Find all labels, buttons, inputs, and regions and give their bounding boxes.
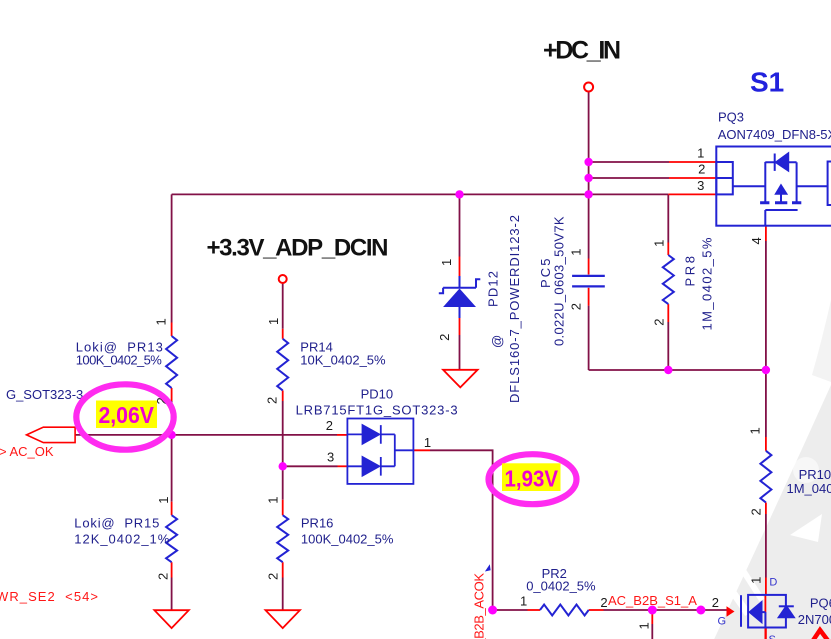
svg-text:10K_0402_5%: 10K_0402_5% — [300, 353, 386, 368]
svg-text:PQ6: PQ6 — [810, 596, 831, 611]
svg-text:> AC_OK: > AC_OK — [0, 444, 54, 459]
svg-text:PR8: PR8 — [683, 256, 698, 287]
svg-text:2: 2 — [652, 319, 667, 326]
svg-text:1: 1 — [439, 259, 454, 266]
svg-text:0.022U_0603_50V7K: 0.022U_0603_50V7K — [552, 216, 567, 346]
pin numbers PR14 (rotated) — [265, 318, 282, 404]
svg-text:LRB715FT1G_SOT323-3: LRB715FT1G_SOT323-3 — [296, 403, 458, 418]
svg-text:2: 2 — [698, 162, 705, 177]
net arrow mark — [485, 564, 491, 571]
wire to PR10 — [765, 370, 767, 437]
svg-text:1: 1 — [652, 240, 667, 247]
wire PC5 top lead — [588, 194, 590, 258]
value PQ6 — [798, 612, 831, 627]
wire PR13-PR15 mid — [171, 401, 173, 502]
svg-text:1: 1 — [749, 577, 764, 584]
wire PQ3 pin4 down — [765, 241, 767, 370]
pin numbers PD12 (rotated) — [437, 259, 454, 341]
svg-text:2: 2 — [156, 573, 171, 580]
transistor PQ6 (bottom right) — [741, 595, 794, 628]
wire PR15 bottom — [171, 578, 173, 611]
svg-text:PR16: PR16 — [301, 516, 334, 531]
label G_SOT323-3 (clipped) — [6, 387, 83, 402]
net AC_B2B_S1_A text — [608, 593, 697, 608]
svg-text:DFLS160-7_POWERDI123-2: DFLS160-7_POWERDI123-2 — [507, 215, 522, 403]
pin numbers PQ3 — [697, 146, 705, 193]
ground under PR15 — [154, 610, 188, 628]
pin S label — [769, 634, 776, 639]
wire PR8 bottom lead — [667, 322, 669, 370]
resistor PR13 — [166, 336, 177, 388]
pin numbers PR8 (rotated) — [652, 240, 667, 326]
net B2B_ACOK (rotated) — [472, 573, 487, 639]
pin 1 branch bottom (rotated) — [637, 622, 652, 629]
label PD12 (rotated) — [486, 271, 501, 307]
svg-text:2: 2 — [569, 303, 584, 310]
svg-text:1: 1 — [424, 435, 431, 450]
label PR16 — [301, 516, 334, 531]
mosfet PQ3 — [716, 147, 831, 226]
label PQ6 — [810, 596, 831, 611]
svg-text:+DC_IN: +DC_IN — [543, 37, 621, 65]
svg-text:1,93V: 1,93V — [505, 466, 559, 492]
pin numbers PR10 (rotated) — [748, 427, 764, 515]
wire PR14 top lead — [282, 283, 284, 328]
value PR16 — [301, 532, 394, 547]
pin numbers PR13 (rotated) — [154, 318, 170, 404]
wire bottom rail — [493, 609, 727, 611]
svg-text:2: 2 — [266, 573, 281, 580]
pin numbers PC5 (rotated) — [569, 249, 584, 311]
svg-text:1: 1 — [156, 496, 171, 503]
label PR8 (rotated) — [683, 256, 698, 287]
pin numbers PR2 — [520, 594, 719, 611]
pin 4 PQ3 (rotated) — [749, 237, 764, 244]
value PR8 (rotated) — [700, 237, 715, 330]
svg-text:AC_B2B_ACOK: AC_B2B_ACOK — [472, 573, 487, 639]
label PR13 — [76, 340, 163, 355]
svg-text:12K_0402_1%: 12K_0402_1% — [74, 532, 169, 547]
annotation text 2,06V — [98, 402, 154, 428]
annotation ellipse 1,93V — [489, 454, 577, 504]
wire PR8 top lead — [667, 194, 669, 242]
wire cap bottom rail — [589, 369, 766, 371]
svg-text:0_0402_5%: 0_0402_5% — [526, 579, 596, 594]
wire PD12 top lead — [459, 194, 461, 256]
svg-text:S: S — [769, 634, 776, 639]
svg-text:1: 1 — [154, 318, 169, 325]
wire PR13 top lead — [171, 194, 173, 322]
pin G label — [718, 616, 727, 628]
resistor PR14 — [277, 339, 288, 391]
svg-text:1: 1 — [569, 249, 584, 256]
svg-text:1: 1 — [637, 622, 652, 629]
wire PC5 bottom lead — [588, 306, 590, 370]
resistor PR8 — [663, 255, 674, 304]
svg-text:D: D — [769, 577, 777, 589]
wire main rail — [172, 193, 669, 195]
svg-text:PD10: PD10 — [361, 387, 394, 402]
wire PR10 to drain — [765, 514, 767, 578]
svg-text:PQ3: PQ3 — [718, 110, 744, 125]
label PR2 — [542, 566, 567, 581]
svg-text:2,06V: 2,06V — [98, 402, 154, 428]
resistor PR15 — [166, 515, 177, 562]
annotation highlight 1,93V — [502, 463, 561, 491]
value PR2 — [526, 579, 596, 594]
svg-text:PR10: PR10 — [799, 467, 831, 482]
net WR_SE2 text — [0, 589, 98, 604]
value PR10 — [787, 481, 831, 496]
svg-text:G: G — [718, 616, 727, 628]
svg-text:1M_0402_5%: 1M_0402_5% — [700, 237, 715, 330]
capacitor PC5 — [572, 276, 605, 287]
label S1 — [750, 67, 784, 98]
wire PD10 pin3 — [283, 465, 338, 467]
pin numbers PR15 (rotated) — [156, 496, 172, 580]
svg-text:1: 1 — [697, 146, 704, 161]
node +DC_IN label — [543, 37, 621, 65]
red pin stubs — [172, 162, 766, 639]
diode PD12 — [439, 276, 481, 318]
svg-text:100K_0402_5%: 100K_0402_5% — [76, 353, 162, 368]
label PC5 (rotated) — [538, 259, 553, 289]
svg-text:1: 1 — [520, 594, 527, 609]
svg-text:2: 2 — [326, 418, 333, 433]
value PR13 — [76, 353, 162, 368]
terminal +DC_IN — [584, 83, 593, 92]
svg-text:PD12: PD12 — [486, 271, 501, 307]
annotation ellipse 2,06V — [76, 384, 173, 449]
value PD12 part (rotated) — [507, 215, 522, 403]
value PR15 — [74, 532, 169, 547]
terminal +3.3V_ADP_DCIN — [279, 275, 287, 283]
wire PD12 bottom lead — [459, 335, 461, 370]
value PD10 — [296, 403, 458, 418]
resistor PR2 — [540, 605, 589, 616]
ground under PD12 — [443, 370, 478, 388]
node +3.3V_ADP_DCIN label — [207, 235, 389, 262]
annotation highlight 2,06V — [96, 401, 157, 429]
svg-text:Loki@ PR15: Loki@ PR15 — [74, 516, 159, 531]
svg-text:1M_0402_5%: 1M_0402_5% — [787, 481, 831, 496]
svg-text:2: 2 — [437, 334, 452, 341]
svg-text:WR_SE2 <54>: WR_SE2 <54> — [0, 589, 98, 604]
svg-text:G_SOT323-3: G_SOT323-3 — [6, 387, 83, 402]
svg-text:AC_B2B_S1_A: AC_B2B_S1_A — [608, 593, 697, 608]
pin 1 PQ6 drain (rotated) — [749, 577, 764, 584]
svg-text:3: 3 — [327, 450, 334, 465]
label PR10 — [799, 467, 831, 482]
svg-text:2: 2 — [712, 595, 719, 610]
svg-text:100K_0402_5%: 100K_0402_5% — [301, 532, 394, 547]
label PR15 — [74, 516, 159, 531]
wire main DC_IN vertical — [588, 92, 590, 195]
net AC_OK text — [0, 444, 54, 459]
svg-text:1: 1 — [748, 427, 763, 434]
svg-text:1: 1 — [266, 496, 281, 503]
svg-text:+3.3V_ADP_DCIN: +3.3V_ADP_DCIN — [207, 235, 389, 262]
label PQ3 — [718, 110, 744, 125]
svg-text:2: 2 — [749, 508, 764, 515]
value PC5 (rotated) — [552, 216, 567, 346]
svg-text:2N7002: 2N7002 — [798, 612, 831, 627]
wire PD10 pin1 to corner — [430, 450, 493, 610]
wire AC_OK rail — [75, 434, 337, 436]
svg-text:2: 2 — [600, 595, 607, 610]
watermark logo — [710, 300, 831, 639]
svg-text:@: @ — [490, 335, 505, 348]
value PR14 — [300, 353, 386, 368]
value PD12 @ (rotated) — [490, 335, 505, 348]
wire branch down from dot — [651, 624, 653, 639]
AC_OK output flag — [27, 427, 76, 442]
pin D label — [769, 577, 777, 589]
svg-text:4: 4 — [749, 237, 764, 244]
svg-text:S1: S1 — [750, 67, 784, 98]
label PD10 — [361, 387, 394, 402]
label AON7409_DFN8-5 — [718, 127, 831, 142]
wire pin1 line — [589, 161, 669, 163]
resistor PR16 — [277, 515, 288, 562]
gate arrow of PQ6 — [727, 606, 735, 616]
svg-text:AON7409_DFN8-5X: AON7409_DFN8-5X — [718, 127, 831, 142]
svg-text:1: 1 — [266, 318, 281, 325]
annotation red mark bottom right — [812, 630, 829, 639]
ground under PR16 — [266, 610, 300, 628]
pin numbers PD10 — [326, 418, 431, 465]
pin numbers PR16 (rotated) — [266, 496, 281, 580]
wire PR14-PR16 — [282, 401, 284, 500]
resistor PR10 — [760, 451, 771, 503]
annotation text 1,93V — [505, 466, 559, 492]
dual diode PD10 — [347, 419, 413, 484]
wire pin2 line — [589, 177, 669, 179]
label PR14 — [300, 340, 333, 355]
svg-text:3: 3 — [697, 178, 704, 193]
svg-text:2: 2 — [265, 397, 280, 404]
wire PR16 bottom — [282, 578, 284, 611]
